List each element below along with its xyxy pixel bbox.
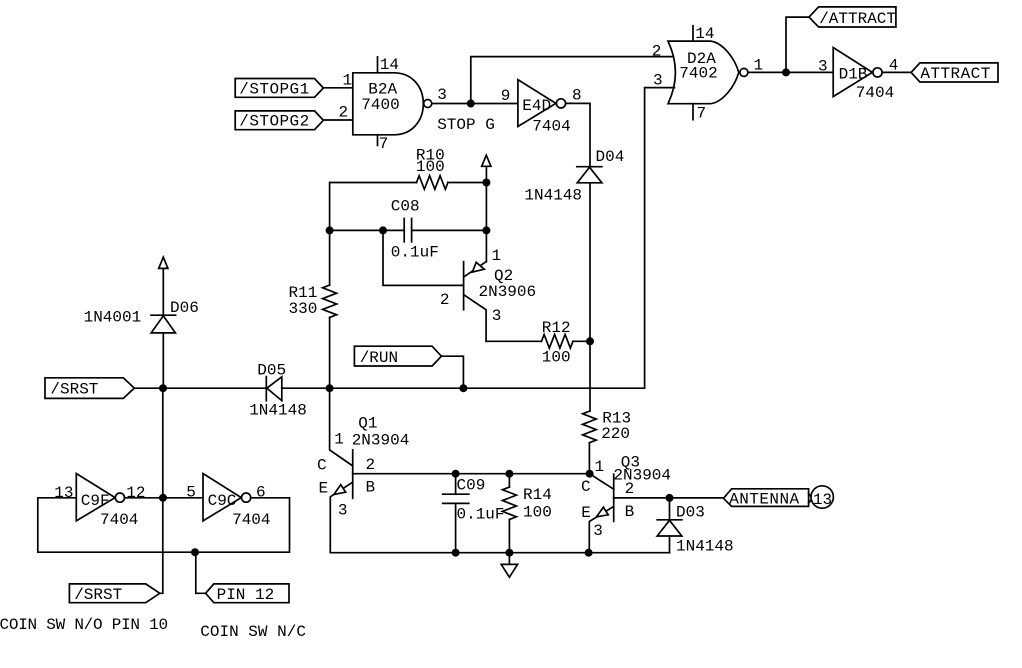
resistor R14 leads <box>508 474 510 553</box>
wire Q2 collector to R12 <box>486 340 541 342</box>
wire /RUN to rail <box>441 356 463 388</box>
svg-text:100: 100 <box>542 349 571 367</box>
svg-text:5: 5 <box>186 483 196 501</box>
wire R12 node down to R13 <box>589 341 591 411</box>
node D03 junction <box>666 494 674 502</box>
svg-text:7404: 7404 <box>100 511 138 529</box>
diode D06 <box>151 315 176 333</box>
resistor R11 leads <box>329 230 331 388</box>
wire /STOPG1 to B2A pin 1 <box>323 87 352 89</box>
inverter E4D body <box>518 80 556 127</box>
wire node up to /ATTRACT flag <box>786 17 809 72</box>
net flag ATTRACT <box>911 63 998 82</box>
resistor R11 <box>323 285 337 317</box>
diode D03 <box>657 520 682 536</box>
node Q2 base tap junction <box>379 226 387 234</box>
svg-text:COIN SW N/O PIN 10: COIN SW N/O PIN 10 <box>0 616 168 634</box>
wire /SRST node down to bottom /SRST flag <box>160 388 163 593</box>
node C08 left junction <box>326 226 334 234</box>
nand gate B2A output bubble <box>424 100 432 108</box>
resistor R12 <box>542 335 573 349</box>
D2A pin 14 stub <box>692 26 694 41</box>
wire C9F input <box>38 497 77 499</box>
node D06 junction <box>159 384 167 392</box>
wire C08 node down to Q2 emitter <box>485 230 487 261</box>
wire E4D output to D04 <box>566 103 590 166</box>
svg-text:7402: 7402 <box>679 64 717 82</box>
svg-text:8: 8 <box>572 87 582 105</box>
wire D2A output to node <box>748 71 786 73</box>
svg-text:100: 100 <box>523 503 552 521</box>
inverter C9C output bubble <box>242 493 251 502</box>
svg-text:C9F: C9F <box>81 492 110 510</box>
svg-text:/ATTRACT: /ATTRACT <box>819 10 896 28</box>
resistor R10 <box>417 176 448 190</box>
node R14 ground junction <box>505 549 513 557</box>
wire D1B output to ATTRACT flag <box>882 71 911 73</box>
svg-text:2N3904: 2N3904 <box>613 467 671 485</box>
svg-text:2: 2 <box>625 480 635 498</box>
node C08 right junction <box>482 226 490 234</box>
svg-text:13: 13 <box>813 491 832 509</box>
svg-text:D05: D05 <box>257 362 286 380</box>
node feedback loop junction <box>191 548 199 556</box>
wire D03 top lead <box>669 498 671 520</box>
node C9F output junction <box>159 494 167 502</box>
svg-text:/SRST: /SRST <box>50 381 98 399</box>
wire D03 bottom lead <box>669 536 671 553</box>
svg-text:13: 13 <box>54 484 73 502</box>
power arrow above D06 <box>159 257 168 315</box>
svg-text:E4D: E4D <box>522 97 551 115</box>
svg-text:C: C <box>581 478 591 496</box>
wire Q1 base rail to Q3 collector node <box>353 473 590 475</box>
svg-text:1: 1 <box>343 72 353 90</box>
svg-text:9: 9 <box>501 87 511 105</box>
svg-text:E: E <box>319 479 329 497</box>
diode D05 <box>266 377 282 401</box>
svg-text:1N4148: 1N4148 <box>249 402 307 420</box>
node R11 rail junction <box>326 384 334 392</box>
svg-text:14: 14 <box>380 56 399 74</box>
net flag /RUN <box>354 346 441 366</box>
svg-text:7: 7 <box>697 105 707 123</box>
wire loop node down to PIN 12 flag <box>196 552 206 593</box>
svg-text:/RUN: /RUN <box>360 349 398 367</box>
diode D04 <box>577 167 602 183</box>
svg-text:B: B <box>625 503 635 521</box>
svg-text:PIN 12: PIN 12 <box>217 586 275 604</box>
node Q3 collector junction <box>586 470 594 478</box>
svg-text:0.1uF: 0.1uF <box>391 244 439 262</box>
power arrow above R10 <box>482 155 491 182</box>
svg-text:R12: R12 <box>542 319 571 337</box>
wire C9F output to C9C input <box>125 497 203 499</box>
svg-text:Q1: Q1 <box>358 415 377 433</box>
net flag PIN 12 <box>206 584 289 603</box>
svg-text:14: 14 <box>695 25 714 43</box>
net flag /SRST bottom <box>69 584 159 603</box>
svg-text:D04: D04 <box>596 148 625 166</box>
svg-text:12: 12 <box>126 484 145 502</box>
wire bottom rail <box>330 552 669 554</box>
wire D2A pin 3 from long vertical <box>645 88 675 389</box>
svg-text:ATTRACT: ATTRACT <box>920 65 990 83</box>
svg-text:7404: 7404 <box>232 511 270 529</box>
wire D04 down to R12 node <box>589 183 591 341</box>
svg-text:Q2: Q2 <box>494 267 513 285</box>
svg-text:/STOPG1: /STOPG1 <box>239 80 309 98</box>
svg-text:2: 2 <box>366 456 376 474</box>
inverter C9F body <box>76 474 115 521</box>
svg-text:2N3906: 2N3906 <box>479 283 537 301</box>
svg-text:R14: R14 <box>523 486 552 504</box>
B2A pin 7 stub <box>377 135 379 146</box>
node Q3 emitter junction <box>585 549 593 557</box>
svg-text:2: 2 <box>440 291 450 309</box>
node /RUN junction <box>459 384 467 392</box>
wire R12 to D04 node <box>573 340 590 342</box>
sheet port circle 13 <box>811 486 833 508</box>
node STOP G junction <box>467 100 475 108</box>
transistor Q2 <box>464 262 487 342</box>
svg-text:COIN SW N/C: COIN SW N/C <box>200 623 306 641</box>
svg-text:/STOPG2: /STOPG2 <box>239 113 309 131</box>
net flag /STOPG1 <box>235 79 323 98</box>
net flag ANTENNA <box>724 489 809 507</box>
wire power node down to C08 node <box>485 183 487 231</box>
node C09 top junction <box>452 470 460 478</box>
wire Q3 base to ANTENNA <box>614 497 724 499</box>
svg-text:D06: D06 <box>170 299 199 317</box>
svg-text:1N4001: 1N4001 <box>84 308 142 326</box>
svg-text:E: E <box>581 504 591 522</box>
svg-text:1N4148: 1N4148 <box>676 538 734 556</box>
svg-text:C09: C09 <box>457 476 486 494</box>
node R12/D04 junction <box>586 337 594 345</box>
svg-text:3: 3 <box>492 307 502 325</box>
inverter C9C body <box>203 474 241 521</box>
wire /STOPG2 to B2A pin 2 <box>323 119 352 121</box>
svg-text:C9C: C9C <box>208 492 237 510</box>
node C09 bottom junction <box>452 549 460 557</box>
wire C08 left rail segment <box>330 229 405 231</box>
D2A pin 7 stub <box>692 104 694 120</box>
wire feedback loop C9C output to C9F input <box>38 498 290 552</box>
ground <box>501 553 517 578</box>
inverter D1B body <box>833 48 872 97</box>
svg-text:3: 3 <box>818 58 828 76</box>
inverter D1B output bubble <box>873 68 882 77</box>
wire node to D1B input <box>786 71 833 73</box>
resistor R14 <box>502 487 516 520</box>
node R14 top junction <box>505 470 513 478</box>
capacitor C08 <box>404 219 486 242</box>
svg-text:7: 7 <box>379 135 389 153</box>
svg-text:1: 1 <box>754 57 764 75</box>
svg-text:D03: D03 <box>676 504 705 522</box>
net flag /STOPG2 <box>235 111 323 130</box>
transistor Q1 <box>330 450 352 553</box>
svg-text:2N3904: 2N3904 <box>352 431 410 449</box>
svg-text:1: 1 <box>595 458 605 476</box>
svg-text:100: 100 <box>416 158 445 176</box>
svg-text:D1B: D1B <box>839 65 868 83</box>
wire D05 to NOR pin3 corner <box>282 387 645 389</box>
inverter E4D output bubble <box>556 99 565 108</box>
capacitor C09 <box>443 474 469 553</box>
svg-text:C: C <box>317 457 327 475</box>
inverter C9F output bubble <box>115 493 124 502</box>
node power/R10 junction <box>482 179 490 187</box>
nor gate D2A output bubble <box>740 68 748 76</box>
nor gate D2A body <box>668 41 739 104</box>
svg-text:0.1uF: 0.1uF <box>457 505 505 523</box>
nand gate B2A body <box>353 73 424 135</box>
transistor Q3 <box>589 474 613 553</box>
svg-text:220: 220 <box>601 425 630 443</box>
wire R13 to Q3 collector node <box>588 443 590 474</box>
node /ATTRACT junction <box>782 68 790 76</box>
wire Q2 base tap down and right <box>383 230 464 285</box>
svg-text:330: 330 <box>289 300 318 318</box>
svg-text:7404: 7404 <box>532 117 570 135</box>
svg-text:2: 2 <box>652 43 662 61</box>
svg-text:STOP G: STOP G <box>437 116 495 134</box>
svg-text:7404: 7404 <box>856 84 894 102</box>
B2A pin 14 stub <box>377 57 379 73</box>
svg-text:2: 2 <box>339 104 349 122</box>
svg-text:3: 3 <box>338 502 348 520</box>
ANTENNA flag right notch <box>809 494 813 504</box>
svg-text:1N4148: 1N4148 <box>524 187 582 205</box>
svg-text:1: 1 <box>334 431 344 449</box>
wire left rail top corner to R10 <box>330 183 417 231</box>
wire STOP G node up and right to D2A pin 2 <box>471 57 674 104</box>
wire D06 down to /SRST rail <box>162 333 164 388</box>
wire /SRST rail to D05 <box>134 387 266 389</box>
svg-text:ANTENNA: ANTENNA <box>729 490 799 508</box>
net flag /SRST left <box>45 378 134 399</box>
resistor R13 <box>583 411 597 443</box>
svg-text:/SRST: /SRST <box>74 586 122 604</box>
svg-text:1: 1 <box>492 247 502 265</box>
svg-text:C08: C08 <box>391 198 420 216</box>
net flag /ATTRACT <box>809 7 896 27</box>
wire R10 to power node <box>448 182 487 184</box>
wire B2A output to node STOP G <box>432 103 471 105</box>
svg-text:7400: 7400 <box>361 96 399 114</box>
svg-text:B: B <box>366 478 376 496</box>
wire STOP G node to E4D pin 9 <box>471 103 518 105</box>
svg-text:3: 3 <box>437 86 447 104</box>
wire left rail down to Q1 collector <box>330 388 353 466</box>
svg-text:3: 3 <box>593 522 603 540</box>
